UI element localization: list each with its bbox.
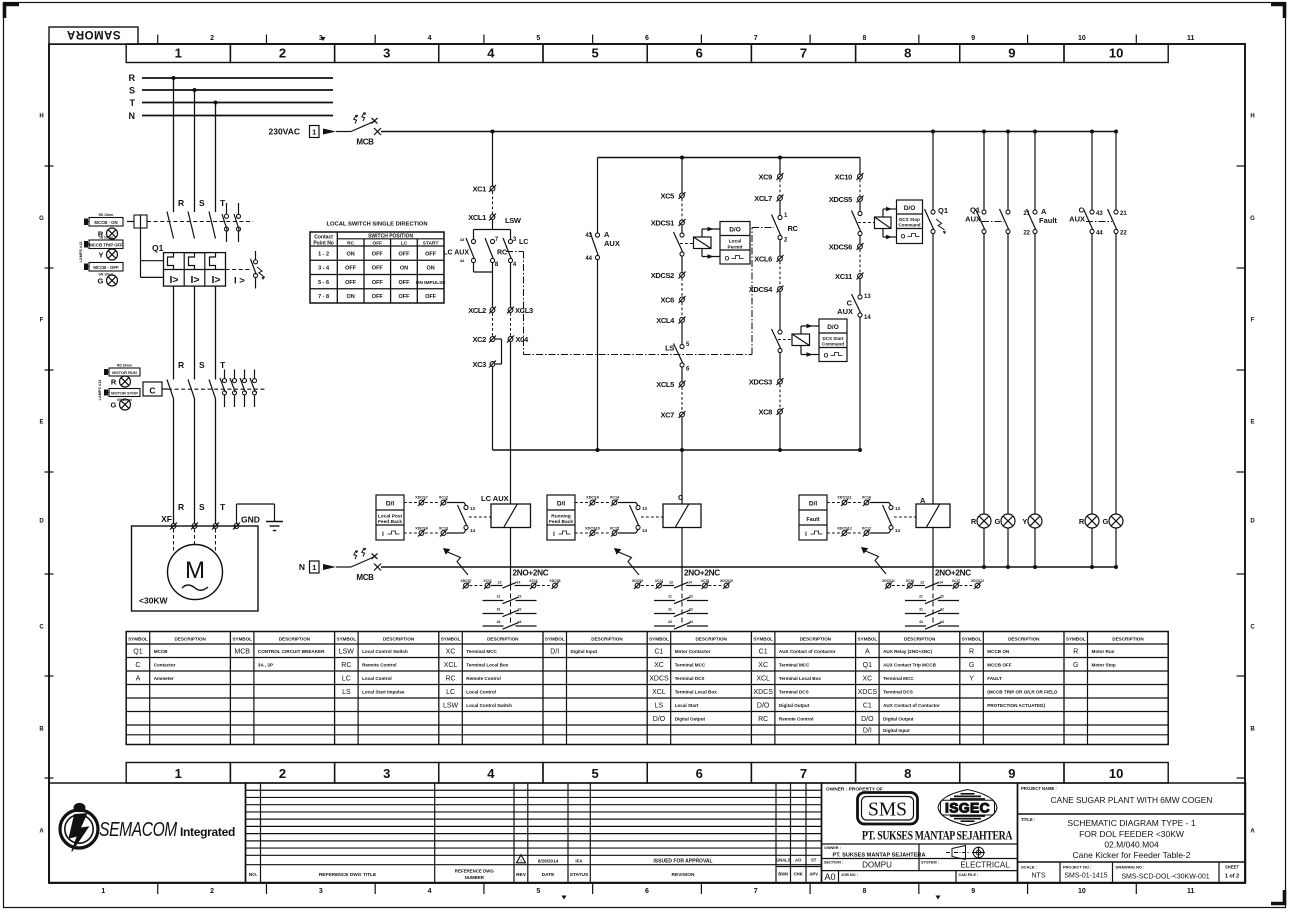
svg-text:D/O: D/O: [729, 227, 741, 234]
svg-text:YE 10mm: YE 10mm: [99, 236, 114, 240]
svg-text:4: 4: [487, 46, 495, 61]
svg-text:LSW: LSW: [339, 648, 355, 655]
svg-text:Y: Y: [1022, 517, 1027, 526]
svg-text:XCL4: XCL4: [656, 316, 675, 325]
svg-text:Running: Running: [551, 514, 571, 520]
svg-text:13: 13: [669, 580, 673, 584]
svg-text:XC16: XC16: [906, 579, 914, 583]
svg-text:13: 13: [642, 506, 648, 511]
svg-text:Local: Local: [729, 239, 742, 245]
svg-text:S: S: [199, 360, 205, 370]
terminal XF S: [192, 524, 197, 529]
svg-text:RC: RC: [788, 224, 799, 233]
svg-text:2: 2: [210, 35, 214, 42]
svg-text:XF: XF: [161, 514, 172, 524]
svg-text:XCL7: XCL7: [754, 194, 772, 203]
terminal XDCS2: [651, 271, 686, 280]
svg-text:SYMBOL: SYMBOL: [1066, 637, 1086, 642]
svg-text:3: 3: [383, 766, 390, 781]
svg-text:XDCS11: XDCS11: [837, 496, 852, 500]
svg-text:DESCRIPTION: DESCRIPTION: [279, 637, 311, 642]
wire XC8 to rail: [779, 415, 781, 451]
svg-text:SCHEMATIC DIAGRAM TYPE - 1: SCHEMATIC DIAGRAM TYPE - 1: [1067, 818, 1195, 828]
svg-text:AUX Contact of Contactor: AUX Contact of Contactor: [779, 649, 836, 654]
svg-text:PROJECT NAME :: PROJECT NAME :: [1021, 786, 1057, 791]
svg-text:21: 21: [919, 595, 923, 599]
svg-text:LS: LS: [342, 689, 351, 696]
svg-text:Digital Input: Digital Input: [571, 649, 598, 654]
svg-text:GNALS: GNALS: [776, 858, 791, 863]
svg-text:Command: Command: [822, 342, 844, 347]
corner trim marks: [5, 5, 20, 19]
svg-text:XCL: XCL: [652, 689, 666, 696]
svg-text:LC AUX: LC AUX: [443, 250, 469, 257]
breaker Q1 trip contact with lightning: [251, 251, 265, 289]
wire XCL4 to LS: [681, 323, 683, 345]
svg-text:CONTROL CIRCUIT BREAKER: CONTROL CIRCUIT BREAKER: [258, 649, 325, 654]
svg-text:XC5: XC5: [660, 192, 674, 201]
svg-text:C: C: [135, 662, 140, 669]
svg-text:E: E: [1250, 420, 1254, 426]
svg-text:XCL5: XCL5: [656, 380, 674, 389]
svg-text:ELECTRICAL: ELECTRICAL: [960, 861, 1010, 870]
junction N lamp G1: [1006, 565, 1010, 569]
wire XDCS6-XC11 dashed: [859, 250, 861, 274]
svg-text:OFF: OFF: [399, 251, 411, 257]
svg-text:REFERENCE DWG TITLE: REFERENCE DWG TITLE: [319, 872, 377, 878]
svg-text:43: 43: [668, 620, 672, 624]
svg-text:PROTECTION ACTUATED): PROTECTION ACTUATED): [987, 703, 1045, 708]
svg-text:22: 22: [1023, 231, 1030, 237]
svg-text:XC2: XC2: [472, 335, 486, 344]
svg-text:Remote Control: Remote Control: [466, 676, 500, 681]
svg-text:STATUS: STATUS: [570, 872, 589, 878]
svg-text:O: O: [901, 235, 906, 241]
terminal XDCS4: [749, 285, 784, 294]
svg-text:D/O: D/O: [653, 716, 666, 723]
ruler numbers top: [101, 35, 1194, 42]
wire Q1 left tap upper: [141, 228, 164, 277]
svg-text:LC: LC: [401, 241, 408, 247]
svg-text:MOTOR RUN: MOTOR RUN: [112, 370, 137, 375]
svg-text:13: 13: [864, 294, 871, 300]
linkage RC dash-dot route: [506, 228, 774, 355]
terminal XC6: [660, 296, 685, 305]
contactor C pole blades: [167, 380, 216, 399]
label LAMPS 12 vertical: [79, 242, 83, 263]
svg-text:DESCRIPTION: DESCRIPTION: [591, 637, 623, 642]
lamp Y MCCB trip: [98, 249, 117, 260]
svg-text:LS: LS: [665, 344, 674, 353]
svg-text:5: 5: [591, 766, 598, 781]
svg-text:SYMBOL: SYMBOL: [337, 637, 357, 642]
break arrow C: [614, 548, 639, 575]
svg-text:14: 14: [517, 580, 521, 584]
junction A fault column: [1033, 130, 1037, 134]
svg-text:Terminal MCC: Terminal MCC: [466, 649, 497, 654]
svg-text:O: O: [824, 354, 829, 360]
svg-text:Cane Kicker for Feeder Table-2: Cane Kicker for Feeder Table-2: [1073, 850, 1191, 860]
lamp Y fault right: [1022, 514, 1042, 567]
svg-text:REVISION: REVISION: [672, 872, 695, 878]
svg-text:A: A: [136, 675, 141, 682]
svg-text:DCS Start: DCS Start: [822, 336, 844, 341]
svg-text:02.M/040.M04: 02.M/040.M04: [1104, 840, 1159, 850]
svg-text:21: 21: [1120, 211, 1127, 217]
svg-text:XC14: XC14: [610, 496, 620, 500]
svg-text:7: 7: [800, 766, 807, 781]
svg-text:Terminal Local Box: Terminal Local Box: [466, 662, 508, 667]
svg-text:XC14: XC14: [655, 579, 663, 583]
svg-text:4: 4: [487, 766, 495, 781]
svg-text:XDCS12: XDCS12: [971, 579, 984, 583]
terminal X04: [507, 335, 529, 344]
svg-text:XDCS10: XDCS10: [585, 527, 600, 531]
wire T contactor to motor: [215, 399, 217, 524]
svg-text:XC15: XC15: [701, 579, 709, 583]
junction N lamp R1: [982, 565, 986, 569]
svg-text:T: T: [220, 360, 226, 370]
svg-text:MCB: MCB: [356, 573, 374, 582]
svg-text:S: S: [199, 502, 205, 512]
svg-text:Command: Command: [898, 223, 920, 228]
svg-text:R: R: [178, 198, 184, 208]
lamp G motor stop: [111, 399, 131, 410]
svg-text:LS: LS: [655, 702, 664, 709]
relay symbol DCS stop: [858, 217, 891, 229]
svg-text:GND: GND: [241, 515, 260, 525]
svg-text:230VAC: 230VAC: [269, 127, 301, 137]
svg-text:XDCS5: XDCS5: [829, 195, 852, 204]
wire to XDCS3: [779, 353, 781, 379]
coil LC AUX aux contact block 2NO+2NC: [461, 528, 561, 630]
svg-text:XC3: XC3: [472, 360, 486, 369]
svg-text:G: G: [1103, 517, 1109, 526]
svg-text:DESCRIPTION: DESCRIPTION: [1008, 637, 1040, 642]
svg-text:PROJECT NO :: PROJECT NO :: [1063, 865, 1091, 870]
svg-text:ON IMPULSE: ON IMPULSE: [416, 280, 447, 286]
junction N lamp R2: [1090, 565, 1094, 569]
label plate MCCB-OFF: [84, 263, 123, 277]
svg-text:10: 10: [1078, 35, 1086, 42]
svg-text:XDCS11: XDCS11: [882, 579, 895, 583]
svg-text:MCB: MCB: [234, 648, 250, 655]
svg-text:TITLE :: TITLE :: [1021, 817, 1035, 822]
svg-text:XC7: XC7: [660, 411, 674, 420]
svg-text:XDCS3: XDCS3: [749, 378, 772, 387]
svg-text:XDCS1: XDCS1: [651, 219, 674, 228]
svg-text:R: R: [969, 648, 974, 655]
svg-text:1: 1: [312, 563, 316, 572]
terminal XC10: [835, 173, 864, 182]
terminal XDCS6: [829, 243, 864, 252]
svg-text:XC: XC: [446, 648, 456, 655]
svg-text:DESCRIPTION: DESCRIPTION: [695, 637, 727, 642]
svg-text:B: B: [1250, 727, 1255, 733]
box D/O Local Permit: [720, 222, 750, 265]
svg-text:RC: RC: [445, 675, 455, 682]
svg-text:XCL2: XCL2: [468, 306, 486, 315]
svg-text:H: H: [1250, 114, 1254, 120]
svg-text:T: T: [220, 502, 226, 512]
wire R drop to Q1: [173, 78, 175, 212]
svg-text:43: 43: [497, 620, 501, 624]
svg-text:Q1: Q1: [133, 648, 142, 655]
svg-text:OWNER :: OWNER :: [824, 846, 841, 850]
svg-text:M: M: [185, 557, 205, 584]
junction A-aux bottom: [596, 448, 600, 452]
svg-text:XC: XC: [654, 662, 664, 669]
svg-text:Digital Output: Digital Output: [779, 703, 810, 708]
motor M circle: [168, 545, 223, 600]
svg-text:XC13: XC13: [439, 527, 449, 531]
svg-text:XC1: XC1: [472, 185, 486, 194]
terminal XC7: [660, 411, 685, 420]
terminal XCL3: [507, 306, 533, 315]
wire XDCS4 to DCS start contact: [779, 292, 781, 330]
svg-text:4: 4: [428, 35, 432, 42]
svg-text:A: A: [1041, 207, 1047, 216]
svg-text:X04: X04: [516, 335, 529, 344]
ground wire and earth symbol: [237, 504, 284, 531]
breaker Q1 linkage dashed: [147, 221, 253, 223]
svg-text:Digital Input: Digital Input: [883, 728, 910, 733]
svg-text:6: 6: [645, 888, 649, 895]
svg-text:C: C: [39, 625, 44, 631]
owner block SMS ISGEC: [822, 783, 1018, 883]
svg-text:44: 44: [689, 620, 693, 624]
label C AUX right: [1069, 206, 1085, 224]
svg-text:ON: ON: [346, 294, 354, 300]
wire R Q1 to contactor: [173, 286, 175, 379]
contact Q1 trip with lightning: [925, 206, 949, 234]
ruler letters left: [39, 114, 44, 835]
title strip SAMORA (rotated): [49, 27, 138, 44]
wire XCL6-XDCS4 dashed: [779, 262, 781, 287]
svg-text:Q1: Q1: [152, 243, 164, 253]
svg-text:DESCRIPTION: DESCRIPTION: [487, 637, 519, 642]
terminal XC1: [472, 185, 496, 194]
terminal XDCS3: [749, 378, 784, 387]
centering marks: [321, 37, 941, 900]
svg-text:XC: XC: [758, 662, 768, 669]
svg-text:OFF: OFF: [373, 241, 383, 247]
motor leads dashed: [174, 529, 216, 552]
svg-text:31: 31: [919, 608, 923, 612]
wire XCL3 branch: [510, 263, 512, 308]
svg-text:D/O: D/O: [904, 205, 916, 212]
wire XC7 to rail: [681, 418, 683, 451]
ruler ticks left: [45, 166, 54, 778]
svg-text:DOMPU: DOMPU: [862, 861, 892, 870]
svg-text:Feed Back: Feed Back: [378, 519, 402, 525]
svg-text:MOTOR STOP: MOTOR STOP: [111, 391, 138, 396]
wire XC3 down to rail: [492, 367, 494, 450]
svg-text:9: 9: [971, 888, 975, 895]
svg-text:Terminal DCS: Terminal DCS: [883, 689, 913, 694]
svg-text:XC12: XC12: [483, 579, 491, 583]
svg-text:DATE: DATE: [542, 872, 556, 878]
sub bus control rail: [598, 157, 861, 159]
svg-text:XC: XC: [862, 675, 872, 682]
dashed trip line to contact: [226, 269, 253, 271]
svg-text:XC11: XC11: [835, 272, 852, 281]
svg-text:8: 8: [904, 766, 911, 781]
wire XCL3-X04 dashed: [510, 313, 512, 336]
svg-text:IFA: IFA: [575, 858, 583, 863]
label plate MCCB TRIP OFF: [84, 236, 123, 249]
terminal GND: [234, 524, 239, 529]
coil A: [916, 496, 950, 528]
breaker Q1 aux contact 1: [222, 203, 229, 242]
wire XCL2-XC2 dashed: [492, 313, 494, 336]
svg-text:XDCS9: XDCS9: [632, 579, 643, 583]
wire XC2 to XC3 jog: [495, 339, 502, 364]
svg-text:S: S: [199, 198, 205, 208]
svg-text:AUX: AUX: [837, 307, 853, 316]
terminal XDCS5: [829, 195, 864, 204]
svg-text:31: 31: [497, 608, 501, 612]
wire C aux to rail end: [859, 317, 861, 450]
ruler ticks top: [158, 35, 1137, 45]
junction XC9 column top: [778, 156, 782, 160]
svg-text:ON: ON: [400, 266, 408, 272]
svg-text:XC16: XC16: [862, 496, 872, 500]
breaker Q1 aux contact 2: [234, 203, 241, 242]
wire XC6-XCL4 dashed: [681, 303, 683, 318]
svg-text:14: 14: [642, 528, 648, 533]
contact RC 1-2: [772, 201, 799, 244]
svg-text:6: 6: [645, 35, 649, 42]
svg-text:APV: APV: [809, 872, 818, 877]
box D/O DCS Stop Command: [897, 200, 923, 244]
wire Q1 left tap lower: [141, 276, 164, 278]
switch LSW contact LC 3-4: [503, 237, 528, 268]
svg-text:I>: I>: [169, 274, 178, 286]
terminal XCL7: [754, 194, 783, 203]
relay symbol local permit: [680, 237, 711, 249]
svg-text:32: 32: [689, 608, 693, 612]
svg-text:6: 6: [696, 46, 703, 61]
svg-text:7: 7: [754, 888, 758, 895]
wire XC9-XCL7 dashed: [779, 180, 781, 196]
contactor C coil box: [143, 382, 168, 396]
svg-text:ISGEC: ISGEC: [945, 801, 990, 816]
wire A aux to bottom rail: [597, 260, 599, 451]
svg-text:G: G: [1073, 662, 1078, 669]
svg-text:SMS: SMS: [868, 800, 907, 821]
wire bus to XC1: [492, 132, 494, 187]
svg-text:SMS-01-1415: SMS-01-1415: [1064, 873, 1107, 880]
wire LS to XCL5: [681, 367, 683, 381]
svg-text:Fault: Fault: [1039, 216, 1057, 225]
svg-text:1: 1: [175, 46, 182, 61]
svg-text:<30KW: <30KW: [139, 596, 169, 606]
svg-text:ON: ON: [346, 251, 354, 257]
svg-text:A: A: [865, 648, 870, 655]
svg-text:D/O: D/O: [827, 324, 839, 331]
svg-text:CANE SUGAR PLANT WITH 6MW COGE: CANE SUGAR PLANT WITH 6MW COGEN: [1051, 795, 1213, 805]
wire rail to XC9: [779, 158, 781, 175]
svg-text:Q1: Q1: [863, 662, 872, 669]
svg-text:Local Control: Local Control: [466, 689, 496, 694]
junction XC8 bottom: [778, 448, 782, 452]
svg-text:D/I: D/I: [550, 648, 559, 655]
ruler letters right: [1250, 114, 1255, 835]
labels R S T above Q1: [178, 198, 226, 208]
terminal XDCS1: [651, 219, 686, 228]
svg-text:5: 5: [536, 888, 540, 895]
svg-text:OFF: OFF: [345, 280, 357, 286]
svg-text:XC6: XC6: [660, 296, 674, 305]
phase bus T: [130, 98, 334, 108]
svg-text:ST: ST: [811, 858, 817, 863]
svg-text:3A , 2P: 3A , 2P: [258, 662, 273, 667]
terminal XC8: [758, 408, 783, 417]
svg-text:OFF: OFF: [425, 251, 437, 257]
svg-text:R: R: [178, 360, 184, 370]
svg-text:44: 44: [460, 258, 465, 263]
wire LSW left return: [474, 263, 493, 273]
terminal XCL1: [468, 213, 496, 222]
svg-text:XC10: XC10: [835, 173, 853, 182]
svg-text:DCS Stop: DCS Stop: [899, 217, 920, 222]
svg-text:N: N: [299, 562, 305, 572]
svg-text:SYMBOL: SYMBOL: [128, 637, 148, 642]
svg-text:22: 22: [518, 595, 522, 599]
svg-text:LAMPS #12: LAMPS #12: [98, 380, 102, 401]
svg-text:C1: C1: [759, 648, 768, 655]
linkage Q1 aux dashed: [982, 221, 1004, 223]
svg-text:5: 5: [591, 46, 598, 61]
svg-text:Motor Run: Motor Run: [1092, 649, 1115, 654]
svg-text:2: 2: [279, 46, 286, 61]
svg-text:PT. SUKSES MANTAP SEJAHTERA: PT. SUKSES MANTAP SEJAHTERA: [832, 853, 925, 859]
junction C-aux bottom: [858, 448, 862, 452]
svg-text:D/I: D/I: [386, 501, 395, 508]
contact DCS permissive: [674, 226, 685, 257]
svg-text:2NO+2NC: 2NO+2NC: [684, 569, 720, 578]
svg-text:G: G: [98, 277, 104, 286]
svg-text:D/I: D/I: [863, 728, 872, 735]
svg-text:44: 44: [940, 620, 944, 624]
svg-text:(MCCB TRIP OR O/LR OR FIELD: (MCCB TRIP OR O/LR OR FIELD: [987, 689, 1058, 694]
svg-text:LC: LC: [342, 675, 351, 682]
break arrow LC AUX: [443, 548, 468, 575]
junction C coil tap: [680, 448, 684, 452]
svg-text:XC13: XC13: [529, 579, 537, 583]
svg-text:Q1: Q1: [938, 206, 948, 215]
wires relay to D/O box DCS start: [801, 324, 819, 357]
svg-text:Local Control Switch: Local Control Switch: [362, 649, 408, 654]
svg-text:XDCS9: XDCS9: [586, 496, 599, 500]
svg-text:13: 13: [470, 506, 476, 511]
svg-text:A: A: [604, 230, 610, 239]
svg-text:XC8: XC8: [758, 408, 772, 417]
terminal XCL5: [656, 380, 685, 389]
svg-text:G: G: [39, 216, 44, 222]
svg-text:G: G: [969, 662, 974, 669]
svg-text:43: 43: [460, 237, 465, 242]
contact A AUX 43-44: [585, 230, 620, 262]
coil A aux contact block 2NO+2NC: [882, 528, 984, 630]
svg-text:XDCS: XDCS: [858, 689, 878, 696]
svg-text:11: 11: [1187, 35, 1195, 42]
terminal XC9: [758, 173, 783, 182]
labels R S T above motor: [178, 502, 226, 512]
svg-text:XCL: XCL: [756, 675, 770, 682]
svg-text:T: T: [220, 198, 226, 208]
